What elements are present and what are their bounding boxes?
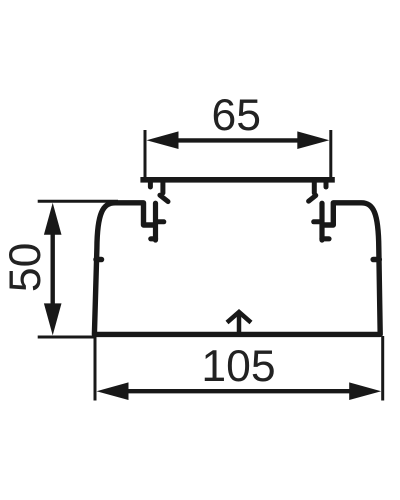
50 top extension line [38,200,118,203]
right finger nub [314,219,322,224]
body profile outline [94,203,380,335]
cover left stub [148,180,153,187]
65 right extension line [329,130,332,178]
cover right clip diagonal [309,195,316,201]
svg-text:50: 50 [1,243,50,293]
cover right stub [324,180,329,187]
50 bottom extension line [38,336,96,339]
base center arrow shaft [237,313,242,332]
svg-text:105: 105 [201,342,275,391]
105 dimension line with arrowheads [97,382,382,400]
left finger nub [156,219,164,224]
105 right extension line [381,336,384,401]
right finger foot [322,236,329,241]
right clip finger [319,203,324,240]
svg-text:65: 65 [212,91,262,140]
cover right leg [312,180,317,193]
50 dimension line with arrowheads [44,203,62,336]
left wall nub [96,257,102,263]
65 dimension line with arrowheads [147,131,330,149]
cover top bar [140,177,334,183]
105 left extension line [94,336,97,401]
left finger foot [151,236,156,241]
base center arrow chevron [227,312,251,323]
right wall nub [373,257,379,263]
left clip finger [153,203,158,240]
65 left extension line [144,130,147,178]
cover left clip diagonal [160,195,168,201]
cover left leg [160,180,165,193]
